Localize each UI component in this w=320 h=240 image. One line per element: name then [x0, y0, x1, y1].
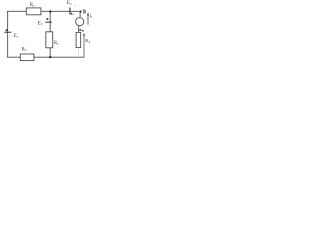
polarity dot below circle: [79, 29, 81, 31]
svg-text:R3: R3: [22, 47, 27, 52]
resistor R4: [76, 32, 81, 47]
node dot top-right corner: [80, 10, 82, 12]
svg-text:R2: R2: [54, 41, 59, 46]
battery E2 polarity mark: [71, 13, 72, 15]
wire R4 bottom stub: [77, 48, 79, 57]
node dot bottom (junction of middle branch): [49, 56, 51, 58]
wire circle branch upper stub: [79, 11, 81, 17]
svg-text:R4: R4: [85, 38, 90, 44]
svg-text:E3: E3: [38, 21, 43, 26]
resistor R2: [46, 32, 53, 48]
wire circle branch lower stub: [78, 26, 80, 33]
battery E3 long plate (middle branch): [45, 21, 52, 23]
resistor R1: [26, 8, 41, 15]
wire bottom: [8, 56, 84, 58]
wire left: [7, 11, 9, 57]
label I1 (two small strokes near top-right corner): [83, 9, 85, 14]
battery E2 long plate: [69, 8, 71, 15]
small mark left of arrowhead: [82, 30, 83, 31]
svg-text:+: +: [72, 13, 74, 17]
faint speck right of E2 label: [75, 5, 76, 7]
svg-text:E1: E1: [14, 34, 19, 39]
resistor R3: [20, 54, 34, 61]
source circle (generator): [76, 18, 84, 26]
svg-text:R1: R1: [30, 2, 35, 8]
faint tick right of dot: [81, 29, 84, 31]
L-shaped current arrow at bottom-right corner: [83, 35, 85, 57]
current arrow I (right side): [87, 15, 89, 25]
battery E1 long plate (left branch): [4, 31, 11, 33]
battery E1 polarity mark: [6, 29, 8, 31]
wire middle branch: [49, 11, 51, 57]
battery E3 polarity mark: [47, 18, 49, 20]
wire top: [8, 10, 81, 12]
svg-text:E2: E2: [67, 1, 72, 6]
node dot top (junction of middle branch): [49, 10, 51, 12]
